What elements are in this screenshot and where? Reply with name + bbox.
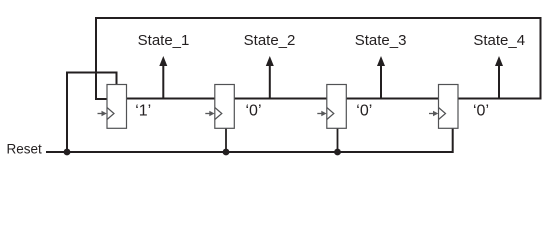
svg-text:‘0’: ‘0’	[245, 103, 261, 120]
wire: FF4 clear stub	[452, 128, 454, 153]
arrow: State_4 output	[495, 56, 503, 99]
arrow: State_1 output	[159, 56, 167, 99]
flip-flop FF2 body	[215, 85, 235, 129]
clock input arrow FF2	[205, 111, 214, 117]
wire: FF4 Q output to feedback loop	[458, 98, 542, 100]
flip-flop FF4 body	[439, 85, 459, 129]
wire: Reset rail	[46, 151, 453, 153]
node: junction FF3 clear	[334, 149, 341, 156]
arrow: State_2 output	[266, 56, 274, 99]
svg-text:State_1: State_1	[138, 32, 190, 49]
wire: feedback top rail (Q4 to D1 loop, top segment)	[96, 17, 541, 19]
flip-flop FF3 body	[327, 85, 347, 129]
flip-flop FF1 body	[107, 85, 127, 129]
svg-text:‘0’: ‘0’	[473, 103, 489, 120]
clock input arrow FF4	[429, 111, 438, 117]
wire: FF2 clear stub	[225, 128, 227, 152]
svg-text:‘1’: ‘1’	[135, 103, 151, 120]
svg-text:Reset: Reset	[7, 142, 43, 157]
wire: Reset riser to FF1 preset	[66, 73, 68, 154]
svg-text:State_4: State_4	[473, 32, 525, 49]
arrow: State_3 output	[377, 56, 385, 99]
svg-text:State_2: State_2	[244, 32, 296, 49]
wire: feedback left vertical into FF1 D input	[95, 17, 97, 99]
node: junction Reset riser	[64, 149, 71, 156]
svg-text:‘0’: ‘0’	[356, 103, 372, 120]
wire: FF3 clear stub	[337, 128, 339, 152]
wire: feedback right vertical from FF4 Q output	[540, 17, 542, 99]
wire: FF1 preset stub	[116, 72, 118, 86]
wire: FF1 Q to FF2 D	[126, 98, 215, 100]
clock input arrow FF3	[317, 111, 326, 117]
svg-text:State_3: State_3	[355, 32, 407, 49]
wire: Reset horizontal over FF1	[66, 72, 117, 74]
wire: FF2 Q to FF3 D	[234, 98, 327, 100]
wire: FF3 Q to FF4 D	[346, 98, 439, 100]
node: junction FF2 clear	[223, 149, 230, 156]
clock input arrow FF1	[98, 111, 107, 117]
wire: FF1 D input horizontal	[95, 98, 108, 100]
